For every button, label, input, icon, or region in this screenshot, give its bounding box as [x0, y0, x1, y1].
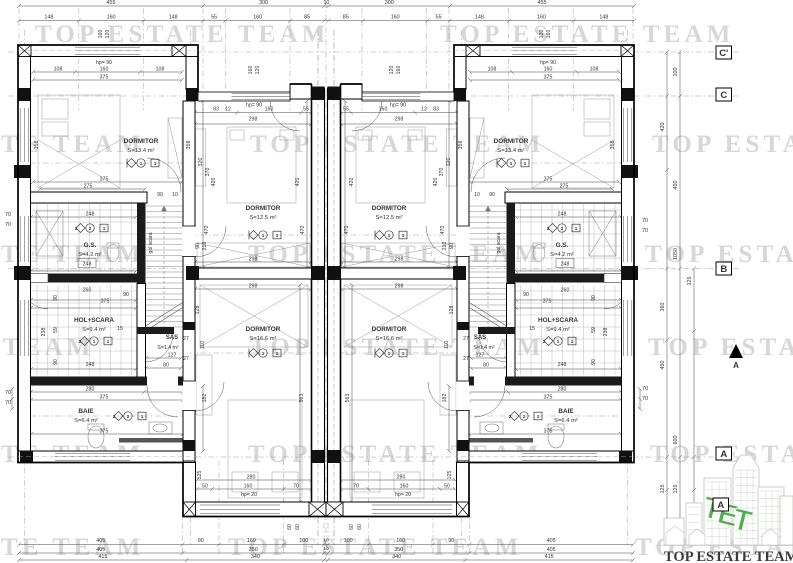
column party wall grid B [312, 266, 325, 280]
svg-text:120: 120 [539, 30, 545, 39]
svg-text:hp= 90: hp= 90 [390, 103, 406, 109]
svg-text:370: 370 [205, 168, 211, 177]
svg-text:85: 85 [304, 15, 310, 21]
svg-text:1: 1 [276, 351, 279, 356]
interior wall hol right [507, 284, 516, 379]
svg-text:275: 275 [560, 184, 569, 190]
svg-text:S=16.6 m²: S=16.6 m² [376, 336, 403, 342]
svg-text:G.S.: G.S. [556, 242, 569, 249]
dim chain dorm12.5 [193, 122, 313, 126]
svg-text:298: 298 [249, 257, 258, 263]
svg-text:280: 280 [397, 475, 406, 481]
svg-text:210: 210 [442, 242, 448, 251]
door opening dorm 16.6 [456, 381, 470, 411]
svg-text:248: 248 [86, 362, 95, 368]
svg-text:2: 2 [127, 414, 130, 419]
top dimension row 2 [17, 19, 636, 23]
entry door arc [270, 101, 300, 131]
svg-text:1: 1 [524, 161, 527, 166]
exterior left wall [622, 57, 635, 463]
column baie corner right [183, 440, 195, 451]
column grid A bottom left [20, 451, 33, 463]
svg-text:A: A [733, 361, 739, 370]
dim chain g.s. [514, 215, 623, 219]
svg-text:340: 340 [251, 554, 260, 560]
svg-text:100: 100 [344, 538, 353, 544]
door arc g.s. [22, 283, 48, 309]
svg-text:TOP ESTATE TEAM: TOP ESTATE TEAM [440, 21, 735, 48]
svg-text:100: 100 [299, 538, 308, 544]
svg-text:125: 125 [447, 471, 453, 480]
door arc baie [147, 386, 178, 417]
svg-text:10: 10 [323, 0, 329, 6]
window left wall dormitor [624, 108, 632, 162]
svg-text:455: 455 [538, 0, 547, 6]
svg-text:S=9.4 m²: S=9.4 m² [546, 327, 570, 333]
column grid C left wall [18, 88, 31, 101]
interior wall hol right [137, 284, 146, 379]
step wall top right of dormitor 13.4 [186, 57, 198, 90]
heavy envelope outline [18, 45, 326, 517]
svg-text:1: 1 [388, 351, 391, 356]
dim chain porch bottom [195, 478, 314, 482]
svg-text:2: 2 [561, 226, 564, 231]
hatched column bottom step [457, 502, 470, 517]
svg-text:12: 12 [421, 107, 427, 113]
svg-text:S=16.6 m²: S=16.6 m² [250, 336, 277, 342]
svg-text:50: 50 [444, 484, 450, 490]
svg-text:1: 1 [557, 339, 560, 344]
svg-text:2: 2 [509, 414, 512, 419]
svg-text:160: 160 [98, 30, 104, 39]
svg-text:2: 2 [547, 226, 550, 231]
svg-text:15: 15 [529, 326, 535, 332]
svg-text:1: 1 [388, 233, 391, 238]
svg-text:160: 160 [544, 67, 553, 73]
svg-text:160: 160 [396, 538, 405, 544]
column corner dormitor13.4 [186, 88, 198, 101]
svg-text:420: 420 [295, 178, 301, 187]
dim chain baie [467, 390, 623, 394]
section triangle A [729, 344, 743, 358]
svg-text:2: 2 [543, 339, 546, 344]
svg-text:83: 83 [433, 107, 439, 113]
svg-text:55: 55 [303, 107, 309, 113]
hatched column top-left corner [621, 45, 634, 57]
svg-text:125: 125 [687, 277, 693, 286]
door opening dorm 16.6 [182, 381, 196, 411]
svg-text:160: 160 [400, 484, 409, 490]
exterior top wall [454, 45, 634, 57]
interior long wall [183, 101, 195, 461]
g.s. 248 label box [78, 259, 96, 268]
svg-text:160: 160 [391, 15, 400, 21]
svg-text:2: 2 [79, 339, 82, 344]
svg-text:70: 70 [5, 222, 11, 228]
svg-text:375: 375 [544, 75, 553, 81]
window top wall [512, 47, 577, 54]
svg-text:148: 148 [44, 15, 53, 21]
window left wall hol [624, 300, 632, 356]
hatched column bottom step [183, 502, 196, 517]
svg-text:60: 60 [295, 524, 301, 530]
column grid C left wall [622, 88, 635, 101]
svg-text:DORMITOR: DORMITOR [246, 326, 281, 333]
bottom wall baie [18, 451, 195, 463]
svg-text:TOP ESTATE TEAM: TOP ESTATE TEAM [35, 21, 330, 48]
svg-text:10: 10 [323, 538, 329, 544]
svg-text:563: 563 [299, 394, 305, 403]
interior wall g.s. right (dark) [507, 203, 516, 284]
column left wall mid [622, 165, 639, 178]
wall axis dashes [454, 51, 634, 457]
svg-text:360: 360 [660, 303, 666, 312]
door opening dorm 12.5 [456, 226, 470, 257]
dim chain top room [468, 70, 621, 74]
svg-text:DORMITOR: DORMITOR [246, 205, 281, 212]
svg-text:60: 60 [349, 524, 355, 530]
svg-text:70: 70 [642, 396, 648, 402]
dim chain hol [514, 298, 623, 302]
svg-text:A: A [717, 500, 724, 511]
baie fixtures [480, 422, 564, 448]
G.S. extension line grid [515, 204, 621, 272]
svg-text:160: 160 [537, 15, 546, 21]
svg-text:127: 127 [476, 353, 485, 359]
svg-text:1: 1 [537, 414, 540, 419]
svg-text:160: 160 [100, 67, 109, 73]
bottom dimension row 1 [17, 543, 635, 547]
svg-text:27: 27 [183, 336, 189, 342]
window bottom baie [55, 453, 130, 460]
svg-text:470: 470 [204, 226, 210, 235]
svg-text:375: 375 [543, 299, 552, 305]
interior wall dorm12.5 / dorm16.6 [195, 268, 312, 279]
svg-text:S=6.4 m²: S=6.4 m² [554, 418, 578, 424]
svg-text:298: 298 [249, 284, 258, 290]
svg-text:120: 120 [105, 30, 111, 39]
svg-text:420: 420 [211, 178, 217, 187]
svg-text:320: 320 [198, 158, 204, 167]
bottom porch wall [326, 502, 457, 517]
dim chain baie [29, 390, 185, 394]
svg-text:DORMITOR: DORMITOR [124, 138, 159, 145]
svg-text:275: 275 [84, 184, 93, 190]
svg-text:415: 415 [98, 554, 107, 560]
interior wall dormitor13.4 / g.s. [31, 192, 148, 203]
left unit interiors [22, 95, 310, 498]
svg-text:90: 90 [123, 292, 129, 298]
svg-text:210: 210 [202, 242, 208, 251]
dim chain top room [31, 70, 184, 74]
svg-text:55: 55 [436, 15, 442, 21]
hatched column top wall right [172, 45, 186, 57]
svg-text:hp= 90: hp= 90 [540, 60, 556, 66]
svg-text:hp= 90: hp= 90 [246, 103, 262, 109]
svg-text:S=1.4 m²: S=1.4 m² [473, 345, 494, 351]
column party wall top [328, 87, 341, 101]
door arc dormitor 12.5 [426, 226, 457, 257]
svg-text:260: 260 [83, 288, 92, 294]
window top wall [75, 47, 140, 54]
svg-text:2: 2 [75, 226, 78, 231]
svg-text:B: B [720, 264, 727, 275]
svg-text:83: 83 [213, 107, 219, 113]
grid bubble A [716, 447, 732, 460]
grid bubble C' [716, 46, 732, 59]
svg-text:110: 110 [200, 341, 206, 349]
svg-text:470: 470 [300, 226, 306, 235]
grid bubble C [716, 88, 732, 101]
column party wall grid B [328, 266, 341, 280]
svg-text:125: 125 [673, 485, 679, 494]
svg-text:S=6.4 m²: S=6.4 m² [74, 418, 98, 424]
svg-text:358: 358 [34, 141, 40, 150]
column grid B interior wall [453, 266, 466, 280]
svg-text:90: 90 [53, 359, 59, 365]
svg-text:160: 160 [396, 66, 402, 75]
svg-text:1: 1 [575, 226, 578, 231]
svg-text:70: 70 [293, 484, 299, 490]
svg-text:300: 300 [385, 0, 394, 6]
bottom dimension row 3 [17, 558, 635, 562]
wall axis dashes [18, 51, 198, 457]
svg-text:gol scara: gol scara [148, 232, 154, 253]
vertical chains [25, 55, 29, 195]
bed dormitor 13.4 [38, 95, 182, 188]
porch top wall [290, 84, 312, 99]
column grid A bottom left [619, 451, 632, 463]
window left wall g.s. [20, 216, 28, 262]
g.s. fixtures [533, 211, 616, 262]
svg-text:S=4.2 m²: S=4.2 m² [78, 252, 102, 258]
exterior top wall [18, 45, 198, 57]
heavy envelope outline [326, 45, 634, 517]
svg-text:70: 70 [5, 390, 11, 396]
svg-text:90: 90 [489, 192, 495, 198]
svg-text:70: 70 [5, 400, 11, 406]
svg-text:455: 455 [107, 0, 116, 6]
svg-text:TOP ESTATE TEAM: TOP ESTATE TEAM [648, 334, 793, 361]
logo buildings sketch [664, 447, 793, 545]
svg-text:405: 405 [547, 547, 556, 553]
svg-text:1: 1 [510, 161, 513, 166]
svg-text:70: 70 [5, 212, 11, 218]
svg-text:248: 248 [558, 212, 567, 218]
hatched column bottom porch party [326, 502, 343, 517]
svg-text:182: 182 [202, 394, 208, 403]
bed dormitor 12.5 [342, 127, 457, 267]
svg-text:160: 160 [107, 15, 116, 21]
svg-text:248: 248 [86, 212, 95, 218]
svg-text:1: 1 [571, 339, 574, 344]
svg-text:70: 70 [642, 218, 648, 224]
svg-text:108: 108 [488, 67, 497, 73]
svg-text:238: 238 [41, 328, 47, 337]
column party wall grid A [312, 450, 325, 463]
window left wall hol [20, 300, 28, 356]
dim chain dorm13.4 bottom [31, 180, 184, 184]
column party wall top [312, 87, 325, 101]
interior wall g.s. right (dark) [137, 203, 146, 284]
svg-text:160: 160 [244, 484, 253, 490]
svg-text:358: 358 [610, 141, 616, 150]
grid bubble B [716, 262, 732, 275]
column left wall mid [14, 165, 31, 178]
svg-text:450: 450 [660, 361, 666, 370]
door arc dormitor 13.4 [147, 158, 181, 192]
svg-text:470: 470 [344, 226, 350, 235]
svg-text:375: 375 [544, 177, 553, 183]
G.S. extension line grid [31, 204, 137, 272]
bottom dimension row 2 [17, 551, 635, 555]
svg-text:DORMITOR: DORMITOR [494, 138, 529, 145]
svg-text:248: 248 [558, 362, 567, 368]
baie fixtures [88, 422, 172, 448]
step wall top right of dormitor 13.4 [454, 57, 466, 90]
svg-text:60: 60 [357, 524, 363, 530]
door arc dormitor 13.4 [471, 158, 505, 192]
svg-text:90: 90 [591, 295, 597, 301]
hatched column top wall right [466, 45, 480, 57]
svg-text:248: 248 [561, 262, 570, 268]
window bottom porch hp=20 [200, 505, 280, 514]
svg-text:260: 260 [561, 288, 570, 294]
svg-text:300: 300 [259, 0, 268, 6]
step wall bottom [457, 463, 470, 517]
dim chain porch top [339, 111, 460, 115]
svg-text:S=12.5 m²: S=12.5 m² [250, 215, 277, 221]
left unit walls [14, 45, 326, 517]
svg-text:1: 1 [402, 233, 405, 238]
stair break line [467, 306, 508, 332]
g.s. fixtures [36, 211, 119, 262]
svg-text:470: 470 [440, 226, 446, 235]
svg-text:128: 128 [195, 306, 201, 315]
svg-text:hp= 20: hp= 20 [241, 492, 257, 498]
window bottom porch hp=20 [372, 505, 452, 514]
svg-text:90: 90 [198, 538, 204, 544]
svg-text:160: 160 [379, 107, 388, 113]
svg-text:420: 420 [433, 178, 439, 187]
svg-text:A: A [720, 449, 727, 460]
svg-text:110: 110 [444, 341, 450, 349]
sas chains [144, 356, 183, 360]
party wall left leaf [328, 88, 341, 517]
right side dimension chains [665, 50, 669, 527]
svg-text:108: 108 [590, 67, 599, 73]
door arc sas [479, 334, 507, 362]
svg-text:127: 127 [168, 353, 177, 359]
svg-text:405: 405 [547, 538, 556, 544]
dim chain g.s. [29, 215, 138, 219]
svg-text:27: 27 [463, 336, 469, 342]
svg-text:1: 1 [141, 414, 144, 419]
svg-text:120: 120 [255, 66, 261, 75]
svg-text:SAS: SAS [166, 335, 178, 341]
svg-text:70: 70 [353, 484, 359, 490]
svg-text:160: 160 [253, 15, 262, 21]
svg-text:G.S.: G.S. [84, 242, 97, 249]
door arc dormitor 16.6 [195, 382, 224, 411]
svg-text:HOL+SCARA: HOL+SCARA [74, 317, 114, 324]
bed dormitor 12.5 [196, 127, 311, 267]
svg-text:450: 450 [673, 181, 679, 190]
svg-text:375: 375 [544, 429, 553, 435]
svg-text:27: 27 [463, 356, 469, 362]
svg-text:90: 90 [195, 243, 201, 249]
door arc sas [145, 334, 173, 362]
logo section A box [713, 498, 729, 511]
svg-text:160: 160 [546, 30, 552, 39]
svg-text:S=9.4 m²: S=9.4 m² [82, 327, 106, 333]
entry door arc [352, 101, 382, 131]
svg-text:182: 182 [442, 394, 448, 403]
svg-text:1: 1 [140, 161, 143, 166]
hatched column bottom porch party [309, 502, 326, 517]
dim chain dorm12.5 [339, 122, 459, 126]
svg-text:375: 375 [101, 299, 110, 305]
svg-text:S=13.4 m²: S=13.4 m² [128, 148, 155, 154]
interior wall dormitor13.4 / g.s. [505, 192, 622, 203]
svg-text:TOP ESTATE TEAM: TOP ESTATE TEAM [664, 549, 793, 563]
svg-text:hp= 90: hp= 90 [96, 60, 112, 66]
staircase treads [469, 206, 506, 330]
bed dormitor 16.6 [196, 285, 308, 498]
column grid B left wall [622, 266, 639, 280]
svg-text:10: 10 [172, 192, 178, 198]
svg-text:70: 70 [642, 386, 648, 392]
svg-text:238: 238 [603, 328, 609, 337]
long wall black cap at sas [457, 322, 469, 330]
svg-text:90: 90 [591, 359, 597, 365]
svg-text:S=13.4 m²: S=13.4 m² [498, 148, 525, 154]
svg-text:248: 248 [83, 262, 92, 268]
svg-text:90: 90 [449, 243, 455, 249]
svg-text:375: 375 [100, 429, 109, 435]
svg-text:2: 2 [89, 226, 92, 231]
svg-text:1: 1 [276, 233, 279, 238]
dim chain porch top [193, 111, 314, 115]
svg-text:1: 1 [93, 339, 96, 344]
bottom wall baie [457, 451, 634, 463]
column corner dormitor13.4 [454, 88, 466, 101]
svg-text:1: 1 [402, 351, 405, 356]
svg-text:DORMITOR: DORMITOR [372, 205, 407, 212]
svg-text:280: 280 [86, 387, 95, 393]
g.s. 248 label box [556, 259, 574, 268]
svg-text:1: 1 [262, 351, 265, 356]
svg-text:375: 375 [100, 395, 109, 401]
svg-text:108: 108 [54, 67, 63, 73]
svg-text:DORMITOR: DORMITOR [372, 326, 407, 333]
svg-text:TOP ESTATE TEAM: TOP ESTATE TEAM [0, 534, 145, 561]
staircase treads [146, 206, 183, 330]
interior wall g.s. / hol (dark) [48, 274, 137, 283]
svg-text:TOP ESTATE TEAM: TOP ESTATE TEAM [652, 131, 793, 158]
column party wall grid A [328, 450, 341, 463]
door opening dorm 12.5 [182, 226, 196, 257]
svg-text:hp= 20: hp= 20 [395, 492, 411, 498]
svg-text:90: 90 [523, 292, 529, 298]
svg-text:100: 100 [673, 68, 679, 77]
svg-text:85: 85 [343, 15, 349, 21]
column baie corner right [457, 440, 469, 451]
svg-text:1: 1 [107, 339, 110, 344]
interior long wall [457, 101, 469, 461]
svg-text:S=12.5 m²: S=12.5 m² [376, 215, 403, 221]
party wall left leaf [312, 88, 325, 517]
